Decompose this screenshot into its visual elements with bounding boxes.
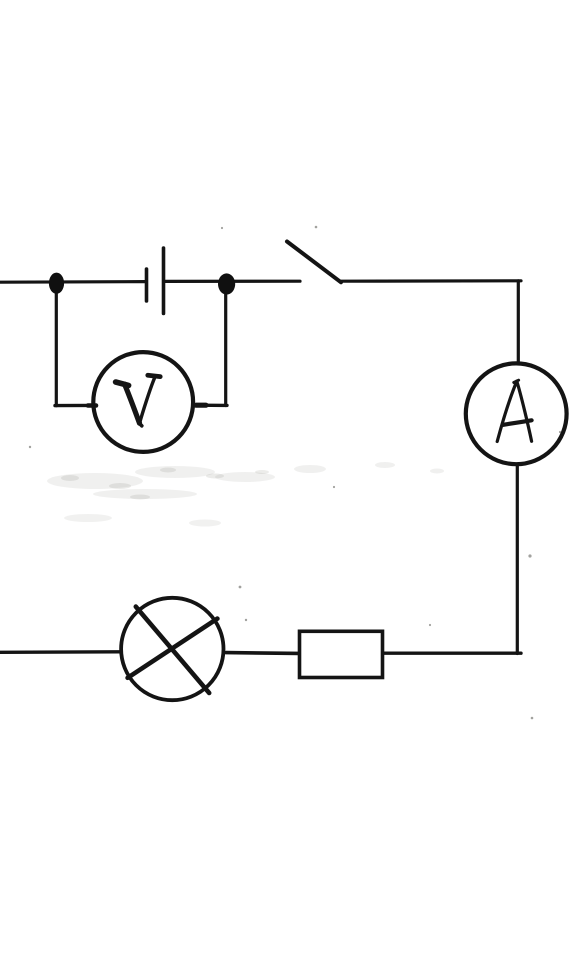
wire nub at voltmeter right terminal: [196, 403, 206, 408]
battery long plate: [162, 248, 166, 314]
wire: lamp to left edge: [0, 650, 120, 654]
voltmeter U-V circle: [93, 352, 193, 452]
lamp L circle: [121, 598, 223, 700]
wire: left voltmeter branch vertical: [55, 285, 58, 406]
wire nub at voltmeter left terminal: [88, 403, 96, 408]
wire: battery to switch gap: [164, 280, 300, 283]
wire: right vertical, ammeter to bottom corner: [516, 466, 519, 654]
ammeter label A: [497, 380, 531, 441]
voltmeter label V: [116, 375, 161, 426]
lamp cross stroke 2: [128, 619, 218, 678]
switch lever: [287, 242, 341, 283]
battery short plate: [145, 269, 149, 301]
wire: resistor to lamp: [226, 651, 299, 655]
wire: left voltmeter branch horizontal: [55, 404, 92, 408]
lamp cross stroke 1: [136, 607, 209, 693]
wire: right voltmeter branch horizontal: [195, 404, 227, 408]
scan specks: [29, 226, 561, 720]
node: right junction dot: [218, 273, 235, 294]
wire: switch to top-right corner: [340, 279, 521, 283]
wire: right vertical, corner to ammeter: [517, 281, 520, 363]
scan smudge band: [47, 462, 444, 527]
resistor R: [300, 631, 383, 677]
wire: right voltmeter branch vertical: [224, 286, 227, 406]
node: left junction dot: [49, 273, 64, 294]
ammeter U-A circle: [466, 363, 567, 464]
wire: left edge to battery: [0, 280, 146, 284]
wire: bottom right, corner to resistor: [384, 652, 521, 655]
